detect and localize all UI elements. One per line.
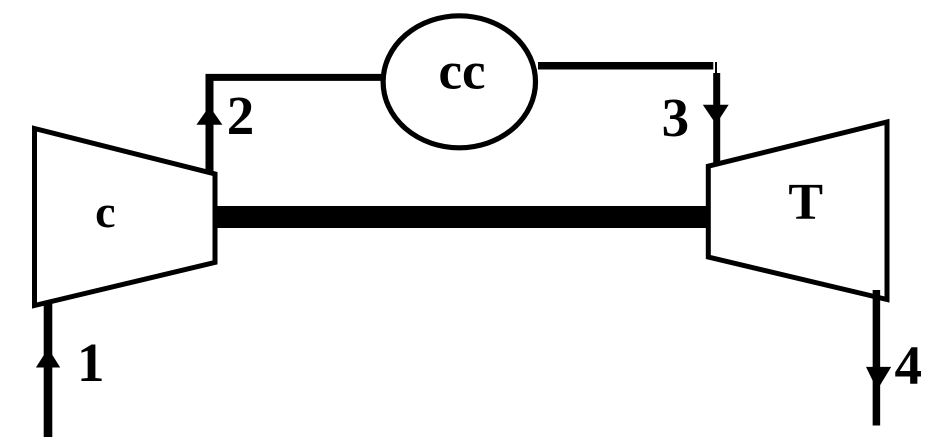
svg-text:c: c <box>95 186 115 237</box>
svg-text:T: T <box>788 174 823 231</box>
svg-text:1: 1 <box>77 332 105 393</box>
svg-text:2: 2 <box>227 85 255 146</box>
svg-text:3: 3 <box>662 87 690 148</box>
svg-text:cc: cc <box>438 43 485 101</box>
svg-text:4: 4 <box>894 335 922 396</box>
